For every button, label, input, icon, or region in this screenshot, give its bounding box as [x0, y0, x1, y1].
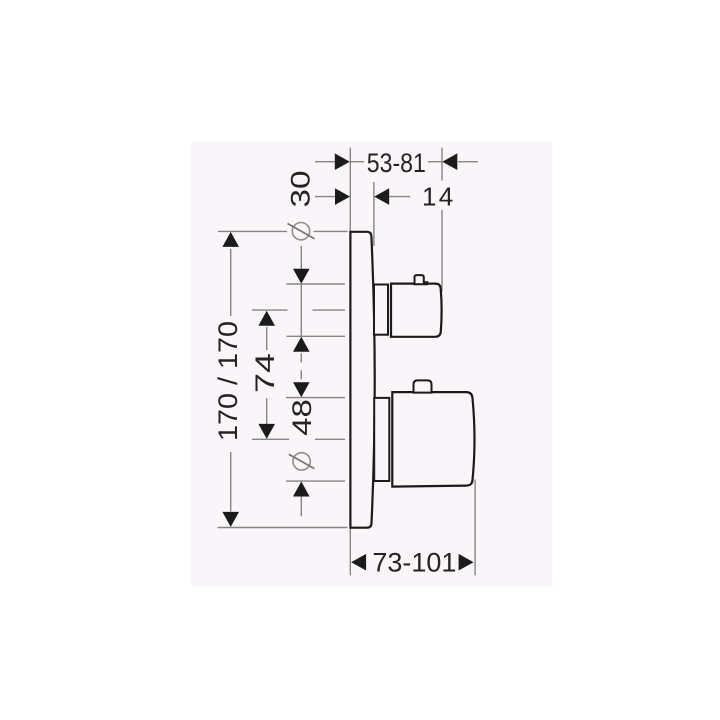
svg-text:73-101: 73-101	[372, 548, 456, 578]
svg-text:53-81: 53-81	[367, 148, 426, 178]
lower knob dome button	[414, 380, 432, 392]
diameter-48 tail line	[300, 497, 302, 517]
dimension 53-81 line	[315, 161, 478, 163]
center line upper knob	[252, 309, 345, 311]
svg-text:1: 1	[422, 182, 436, 212]
dimension 14 arrows	[335, 188, 389, 205]
svg-text:48: 48	[287, 399, 317, 436]
upper knob tab	[415, 275, 428, 284]
diameter-30 leader line	[300, 246, 302, 269]
dimension 73-101 arrows	[351, 554, 474, 571]
dimension 14 line	[315, 196, 410, 198]
diameter-30 dimension line through span	[300, 284, 302, 336]
drawing panel background	[191, 142, 552, 588]
extension line knob48 bottom	[286, 480, 345, 482]
extension line plate bottom	[218, 527, 348, 529]
lower sleeve	[374, 398, 389, 481]
diameter stack arrows	[293, 269, 310, 497]
extension line knob48 top	[286, 397, 345, 399]
dimension 170/170 line	[230, 249, 232, 512]
upper knob	[391, 284, 442, 337]
dimension 74 arrows	[258, 311, 275, 439]
extension line plate front for 14	[373, 182, 375, 246]
svg-text:74: 74	[250, 353, 280, 393]
dashed connector between dia30 and dia48 arrows	[300, 353, 302, 381]
svg-text:30: 30	[286, 171, 316, 208]
extension line plate top	[218, 230, 348, 232]
dimension 53-81 arrows	[335, 153, 458, 170]
extension line right of 73-101	[474, 480, 476, 576]
upper sleeve	[374, 285, 388, 335]
diameter symbol lower	[289, 453, 315, 470]
svg-text:170 / 170: 170 / 170	[213, 321, 243, 441]
extension line knob30 bottom	[287, 335, 346, 337]
dimension 170/170 arrows	[222, 232, 239, 527]
wall extension line	[349, 148, 351, 576]
diameter symbol upper	[288, 223, 315, 240]
dimension 74 line	[266, 327, 268, 424]
wall plate outline	[350, 232, 374, 528]
extension line right of 53-81	[441, 148, 443, 292]
lower knob	[392, 392, 474, 487]
center line lower knob	[252, 438, 345, 440]
svg-text:4: 4	[439, 182, 453, 212]
extension line knob30 top	[287, 283, 346, 285]
